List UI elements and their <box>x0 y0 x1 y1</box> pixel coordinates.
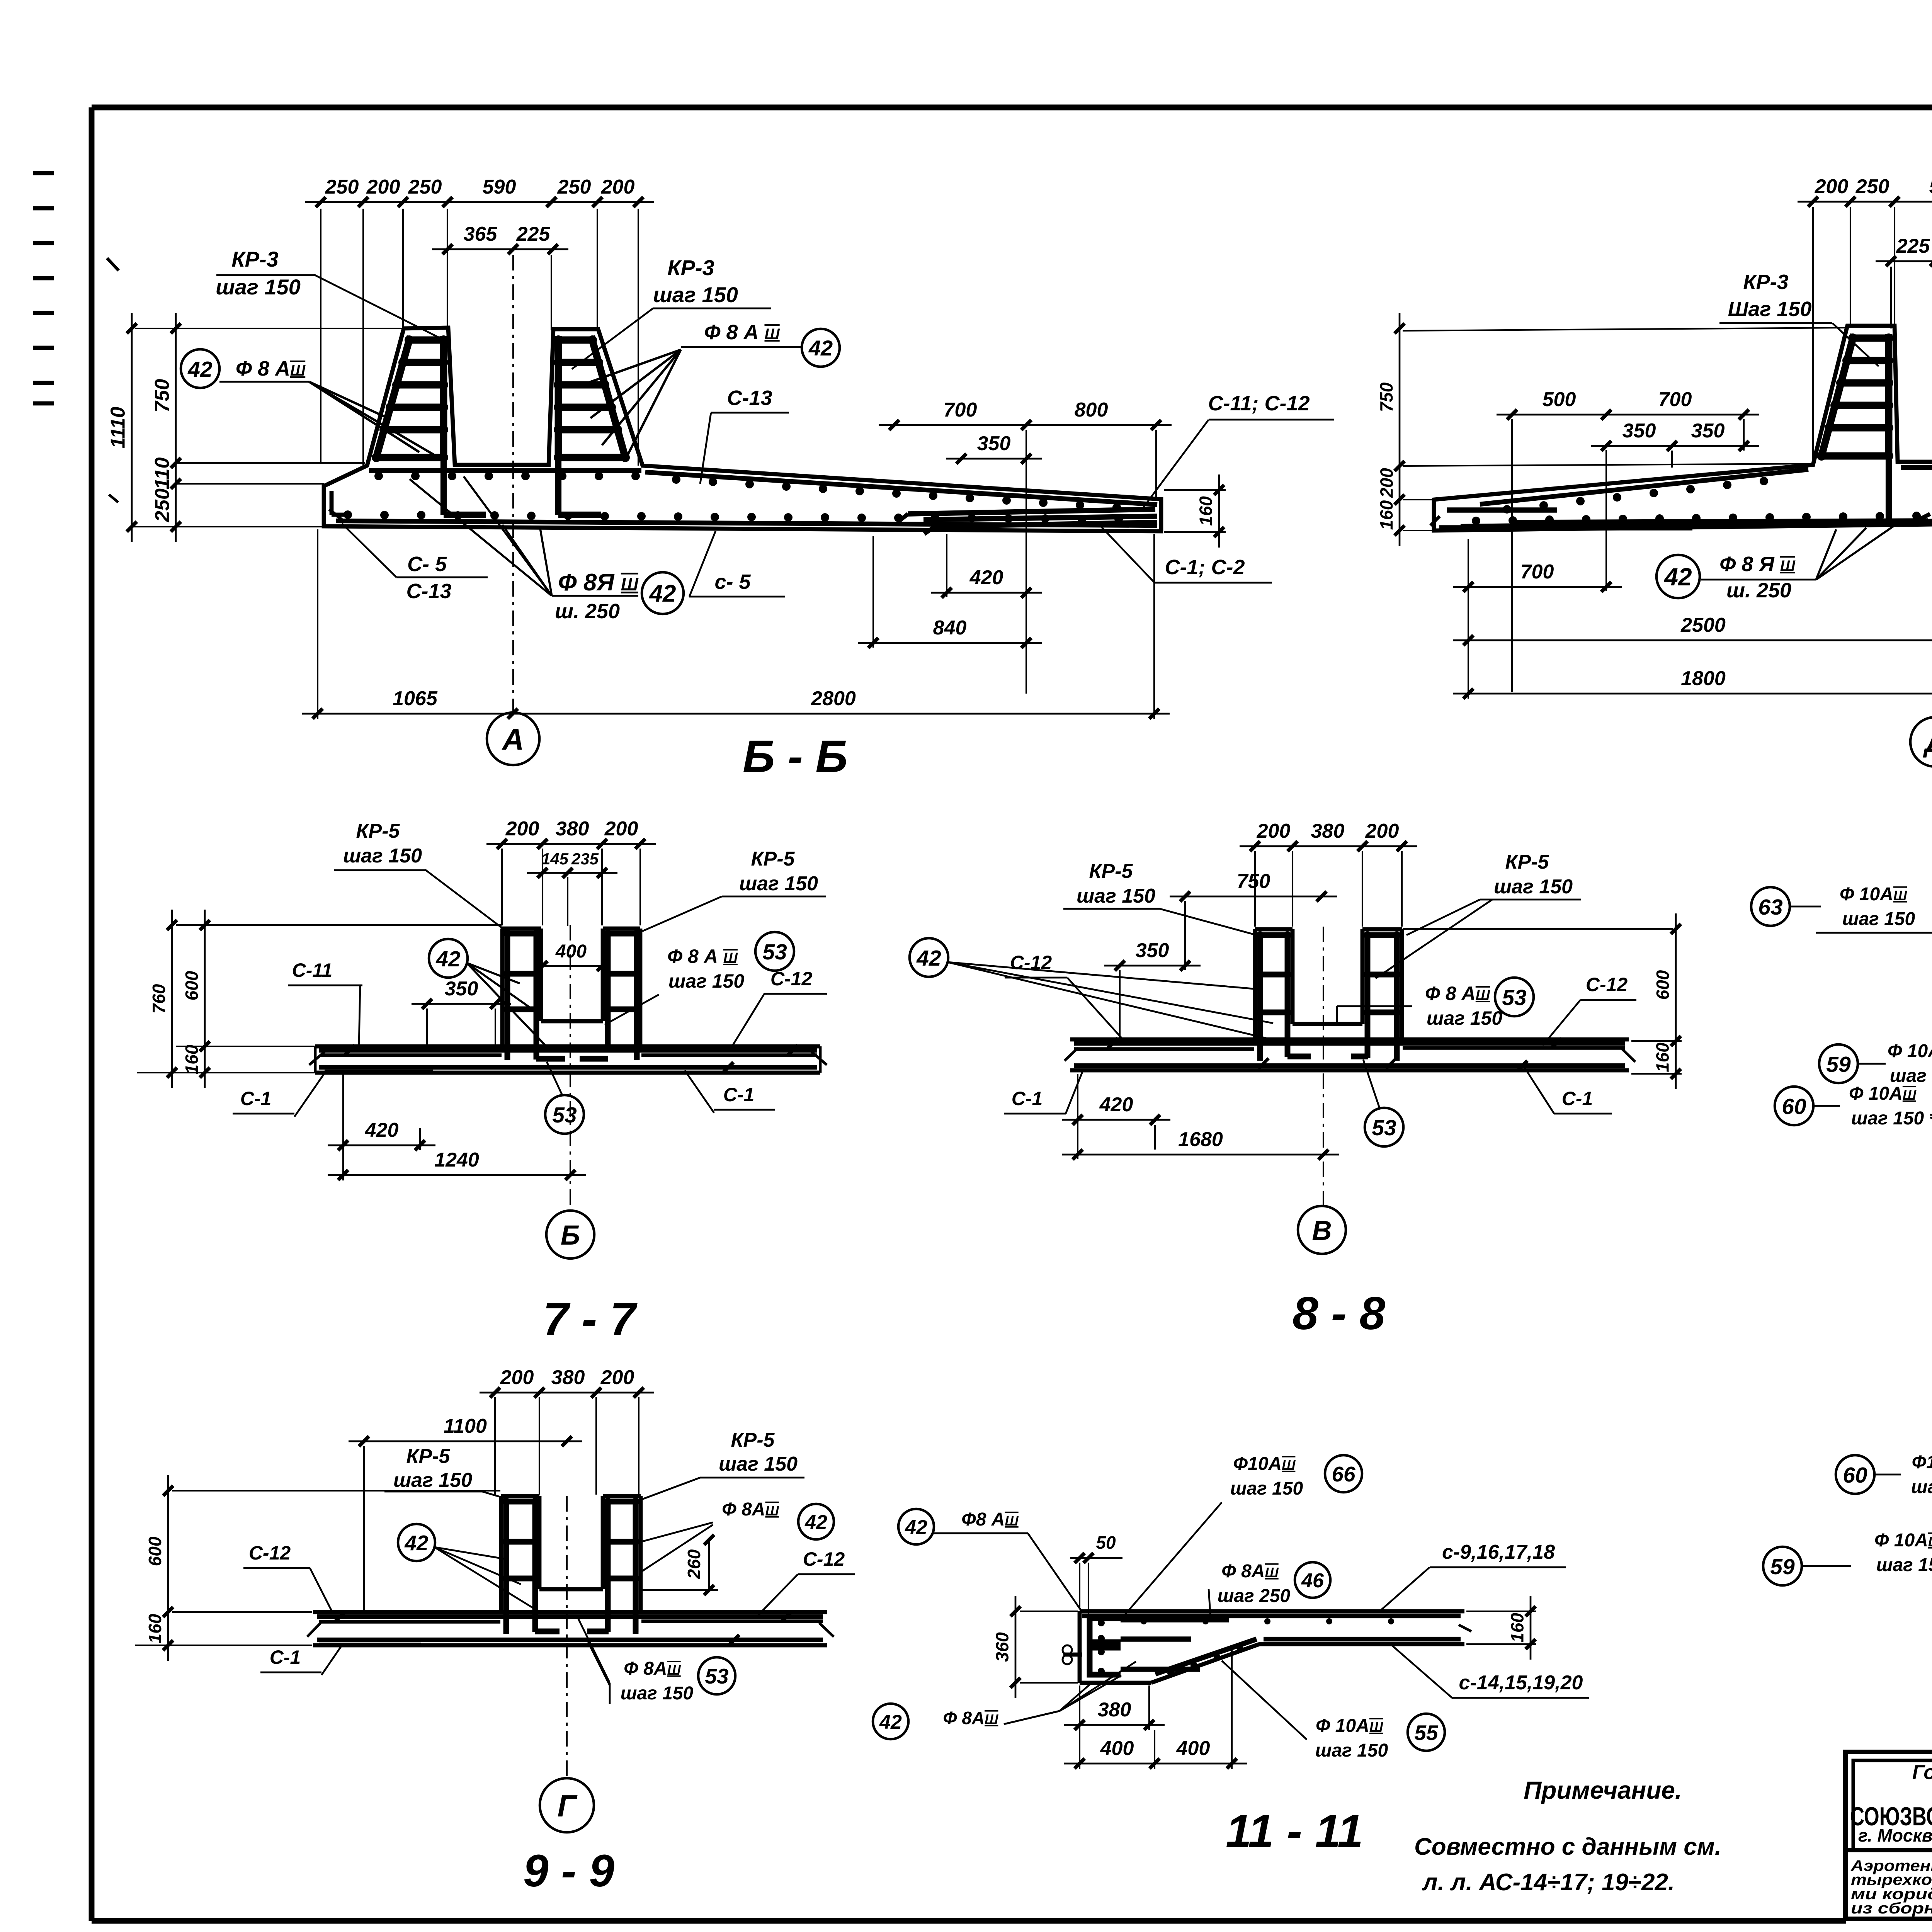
svg-text:200: 200 <box>1377 468 1397 498</box>
svg-text:53: 53 <box>552 1103 577 1128</box>
svg-text:350: 350 <box>1136 939 1169 962</box>
svg-text:шаг 250: шаг 250 <box>1218 1586 1291 1606</box>
svg-text:42: 42 <box>808 336 833 360</box>
svg-text:шаг 150: шаг 150 <box>739 872 818 895</box>
svg-text:шаг 150: шаг 150 <box>343 845 422 867</box>
svg-text:700: 700 <box>944 399 977 421</box>
svg-text:365: 365 <box>464 223 498 245</box>
svg-text:42: 42 <box>187 357 213 382</box>
svg-text:2800: 2800 <box>811 687 856 710</box>
svg-text:200: 200 <box>505 818 539 840</box>
svg-text:КР-5: КР-5 <box>1505 851 1549 873</box>
svg-text:ш. 250: ш. 250 <box>1726 579 1791 602</box>
svg-text:160: 160 <box>182 1044 202 1074</box>
svg-text:1065: 1065 <box>393 687 438 710</box>
svg-text:КР-5: КР-5 <box>356 820 400 842</box>
svg-text:ш. 250: ш. 250 <box>555 600 620 623</box>
svg-text:200: 200 <box>1815 175 1849 198</box>
svg-text:600: 600 <box>1653 970 1673 1000</box>
svg-text:42: 42 <box>916 946 941 971</box>
svg-text:С-12: С-12 <box>1586 974 1628 995</box>
svg-text:С-11; С-12: С-11; С-12 <box>1208 392 1310 415</box>
svg-text:КР-3: КР-3 <box>667 255 714 280</box>
svg-text:С-12: С-12 <box>803 1548 845 1570</box>
svg-text:53: 53 <box>1372 1116 1396 1140</box>
svg-text:1110: 1110 <box>107 406 129 448</box>
svg-text:1240: 1240 <box>434 1149 479 1171</box>
svg-text:260: 260 <box>684 1549 704 1579</box>
svg-text:200: 200 <box>601 176 635 198</box>
svg-text:шаг 150: шаг 150 <box>1876 1555 1932 1575</box>
svg-text:С-1: С-1 <box>240 1088 272 1109</box>
svg-text:шаг 150: шаг 150 <box>621 1683 694 1704</box>
svg-text:КР-5: КР-5 <box>1089 860 1133 883</box>
svg-text:760: 760 <box>149 984 169 1014</box>
svg-text:КР-3: КР-3 <box>1743 270 1788 294</box>
svg-text:160: 160 <box>1507 1613 1527 1643</box>
svg-text:Примечание.: Примечание. <box>1524 1776 1682 1804</box>
svg-text:1800: 1800 <box>1681 667 1726 690</box>
svg-text:500: 500 <box>1543 388 1576 411</box>
svg-text:42: 42 <box>905 1516 927 1539</box>
svg-text:С-13: С-13 <box>406 580 451 603</box>
svg-text:63: 63 <box>1758 895 1783 920</box>
svg-text:с-9,16,17,18: с-9,16,17,18 <box>1442 1541 1555 1563</box>
svg-text:42: 42 <box>649 580 676 607</box>
svg-text:Шаг 150: Шаг 150 <box>1728 298 1812 321</box>
svg-text:шаг 150: шаг 150 <box>1842 909 1915 929</box>
svg-text:250: 250 <box>325 176 359 198</box>
svg-text:из сборного железобетона: из сборного железобетона <box>1851 1900 1932 1917</box>
svg-text:360: 360 <box>992 1632 1012 1662</box>
svg-text:225: 225 <box>516 223 551 245</box>
svg-text:400: 400 <box>1176 1737 1210 1760</box>
svg-text:с- 5: с- 5 <box>714 570 751 594</box>
svg-text:840: 840 <box>933 617 967 639</box>
svg-text:л. л. АС-14÷17; 19÷22.: л. л. АС-14÷17; 19÷22. <box>1422 1869 1675 1896</box>
svg-text:1680: 1680 <box>1178 1128 1223 1151</box>
svg-text:53: 53 <box>1502 985 1527 1010</box>
svg-text:420: 420 <box>1099 1094 1133 1116</box>
svg-text:42: 42 <box>404 1531 429 1555</box>
svg-text:шаг 150: шаг 150 <box>1230 1478 1303 1499</box>
svg-text:Г: Г <box>557 1789 578 1823</box>
svg-text:60: 60 <box>1782 1094 1806 1119</box>
svg-text:50: 50 <box>1096 1532 1116 1553</box>
svg-text:С-13: С-13 <box>727 386 772 410</box>
svg-text:200: 200 <box>600 1366 634 1389</box>
svg-text:250: 250 <box>1855 175 1889 198</box>
svg-text:225: 225 <box>1896 235 1930 257</box>
svg-text:шаг 150: шаг 150 <box>1427 1007 1502 1029</box>
svg-text:110: 110 <box>151 457 173 489</box>
svg-text:800: 800 <box>1075 399 1108 421</box>
svg-text:380: 380 <box>1098 1699 1131 1721</box>
svg-text:7 - 7: 7 - 7 <box>543 1293 638 1345</box>
svg-text:380: 380 <box>556 818 589 840</box>
svg-text:с-14,15,19,20: с-14,15,19,20 <box>1459 1672 1583 1694</box>
svg-text:55: 55 <box>1414 1721 1439 1745</box>
svg-text:2500: 2500 <box>1680 614 1726 636</box>
svg-text:420: 420 <box>365 1119 399 1141</box>
svg-text:шаг 150: шаг 150 <box>1315 1740 1388 1761</box>
svg-text:350: 350 <box>445 978 478 1000</box>
svg-text:С-1: С-1 <box>270 1646 301 1668</box>
svg-text:700: 700 <box>1658 388 1692 411</box>
svg-text:шаг 150: шаг 150 <box>719 1453 798 1475</box>
svg-text:235: 235 <box>571 850 599 868</box>
svg-text:420: 420 <box>969 566 1003 589</box>
svg-text:42: 42 <box>435 947 461 971</box>
svg-text:380: 380 <box>551 1366 585 1389</box>
svg-text:8 - 8: 8 - 8 <box>1293 1287 1385 1339</box>
svg-text:350: 350 <box>977 432 1011 455</box>
svg-text:г. Москва: г. Москва <box>1858 1825 1932 1845</box>
svg-text:шаг 150: шаг 150 <box>668 970 744 992</box>
svg-text:Б - Б: Б - Б <box>743 731 848 782</box>
svg-text:9 - 9: 9 - 9 <box>523 1845 614 1896</box>
svg-text:С-12: С-12 <box>249 1542 291 1564</box>
svg-text:590: 590 <box>1929 175 1932 198</box>
svg-text:Б: Б <box>561 1220 580 1251</box>
svg-text:Госстрой СССР: Госстрой СССР <box>1912 1761 1932 1784</box>
svg-text:600: 600 <box>145 1536 165 1566</box>
svg-text:шаг 150: шаг 150 <box>1851 1108 1924 1129</box>
svg-text:1100: 1100 <box>444 1415 487 1437</box>
svg-text:250: 250 <box>151 488 174 522</box>
svg-text:53: 53 <box>705 1664 728 1688</box>
svg-text:С-1: С-1 <box>1012 1088 1043 1109</box>
svg-text:200: 200 <box>1365 820 1399 842</box>
svg-text:700: 700 <box>1520 561 1554 583</box>
svg-text:В: В <box>1312 1216 1332 1246</box>
svg-text:С-1: С-1 <box>1562 1088 1593 1109</box>
svg-text:60: 60 <box>1843 1463 1867 1488</box>
svg-text:750: 750 <box>1237 870 1270 893</box>
svg-text:53: 53 <box>762 940 787 964</box>
svg-text:145: 145 <box>541 850 569 868</box>
svg-text:Ф 10АШ: Ф 10АШ <box>1874 1530 1932 1551</box>
svg-text:С- 5: С- 5 <box>407 553 447 576</box>
svg-text:160: 160 <box>145 1614 165 1643</box>
svg-text:350: 350 <box>1691 420 1725 442</box>
svg-text:КР-5: КР-5 <box>731 1429 775 1451</box>
svg-text:590: 590 <box>483 176 516 198</box>
svg-text:Ф10АШ: Ф10АШ <box>1912 1452 1932 1473</box>
svg-text:С-12: С-12 <box>1010 952 1052 973</box>
svg-text:Совместно с данным см.: Совместно с данным см. <box>1414 1833 1721 1860</box>
svg-text:42: 42 <box>879 1711 902 1733</box>
svg-text:42: 42 <box>804 1511 827 1534</box>
svg-text:400: 400 <box>1100 1737 1134 1760</box>
svg-text:750: 750 <box>1376 382 1396 412</box>
svg-text:46: 46 <box>1301 1570 1324 1592</box>
svg-text:250: 250 <box>557 176 591 198</box>
svg-text:А: А <box>502 722 524 756</box>
svg-text:С-1: С-1 <box>723 1084 755 1105</box>
svg-text:750: 750 <box>151 379 173 413</box>
svg-text:КР-5: КР-5 <box>406 1445 451 1468</box>
svg-text:11 - 11: 11 - 11 <box>1226 1805 1363 1857</box>
svg-text:шаг 150: шаг 150 <box>1494 876 1573 898</box>
svg-text:С-11: С-11 <box>292 959 333 981</box>
svg-text:160: 160 <box>1653 1043 1673 1072</box>
svg-text:шаг 150: шаг 150 <box>216 275 301 299</box>
svg-text:С-12: С-12 <box>770 968 813 990</box>
svg-text:шаг 150: шаг 150 <box>1077 885 1155 907</box>
svg-text:250: 250 <box>408 176 442 198</box>
svg-text:шаг 150: шаг 150 <box>653 282 738 307</box>
svg-text:КР-5: КР-5 <box>751 848 795 870</box>
svg-text:380: 380 <box>1311 820 1345 842</box>
svg-text:42: 42 <box>1663 563 1692 591</box>
svg-text:КР-3: КР-3 <box>231 247 279 271</box>
svg-text:шаг 150: шаг 150 <box>1911 1477 1932 1497</box>
svg-text:200: 200 <box>366 176 400 198</box>
svg-text:59: 59 <box>1770 1554 1795 1579</box>
svg-text:160: 160 <box>1196 496 1216 526</box>
svg-text:59: 59 <box>1826 1052 1851 1077</box>
svg-text:66: 66 <box>1332 1462 1355 1486</box>
svg-text:Ф 10АШ: Ф 10АШ <box>1888 1041 1932 1061</box>
svg-text:200: 200 <box>500 1366 534 1389</box>
svg-text:600: 600 <box>182 971 202 1000</box>
svg-text:350: 350 <box>1622 420 1656 442</box>
svg-text:200: 200 <box>604 818 638 840</box>
svg-text:200: 200 <box>1257 820 1291 842</box>
svg-text:С-1; С-2: С-1; С-2 <box>1165 556 1245 579</box>
svg-text:шаг 150: шаг 150 <box>393 1469 472 1492</box>
svg-text:160: 160 <box>1376 500 1396 530</box>
